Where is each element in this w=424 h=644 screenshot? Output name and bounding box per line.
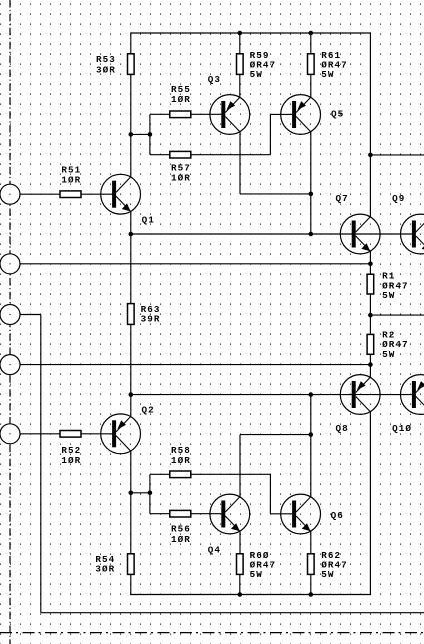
- transistor Q9: [401, 214, 424, 254]
- wire R1 to node: [369, 294, 371, 315]
- svg-text:5W: 5W: [250, 69, 263, 80]
- wire R61 to Q5 emitter: [310, 74, 312, 97]
- svg-text:Q1: Q1: [142, 214, 155, 225]
- junction R58 R56 node: [148, 491, 153, 496]
- wire R58-R56 left link: [149, 474, 151, 513]
- wire node to R58/R56 link: [131, 492, 150, 494]
- wire R62 bottom lead: [310, 574, 312, 594]
- svg-text:5W: 5W: [321, 69, 334, 80]
- svg-text:5W: 5W: [382, 290, 395, 301]
- svg-text:Q2: Q2: [142, 405, 155, 416]
- wire Q7 emitter to node: [369, 251, 371, 264]
- wire negative rail bottom: [131, 594, 371, 596]
- sheet border left (dash-dot): [9, 0, 11, 644]
- wire input 3 down: [40, 315, 42, 613]
- resistor R2: [367, 334, 374, 354]
- terminal pad input 2: [0, 254, 20, 274]
- wire Q6 collector up to base bus: [310, 395, 312, 497]
- resistor R58: [170, 471, 191, 478]
- wire R57 to corner: [191, 154, 271, 156]
- wire input 1 to R51: [21, 193, 61, 195]
- resistor R55: [170, 111, 191, 118]
- terminal pad input 4: [0, 355, 20, 375]
- transistor Q2: [101, 414, 141, 454]
- svg-text:Q6: Q6: [331, 510, 344, 521]
- wire R57 left lead: [150, 154, 170, 156]
- wire node to R55/R57 link: [131, 133, 150, 135]
- wire positive rail top: [131, 32, 371, 34]
- junction R61 top rail: [309, 31, 314, 36]
- svg-text:1ØR: 1ØR: [61, 455, 81, 466]
- transistor Q7: [340, 214, 380, 254]
- svg-text:Q5: Q5: [331, 108, 344, 119]
- resistor R51: [60, 191, 81, 198]
- wire R52 to Q2 base: [81, 433, 113, 435]
- resistor R53: [128, 54, 135, 75]
- wire input 3 across: [21, 314, 41, 316]
- wire node to R63 top: [130, 234, 132, 304]
- wire R55 left lead: [150, 113, 170, 115]
- svg-text:1ØR: 1ØR: [61, 175, 81, 186]
- junction Q6 to base bus: [309, 392, 314, 397]
- wire Q3 collector down: [239, 132, 241, 194]
- svg-text:39R: 39R: [141, 314, 161, 325]
- terminal pad input 5: [0, 424, 20, 444]
- resistor R52: [60, 431, 81, 438]
- wire Q4 emitter to R60: [239, 531, 241, 554]
- svg-text:1ØR: 1ØR: [171, 94, 191, 105]
- wire corner up to Q5 base level: [269, 114, 271, 154]
- svg-text:5W: 5W: [321, 569, 334, 580]
- transistor Q4: [210, 494, 250, 534]
- svg-text:3ØR: 3ØR: [95, 564, 115, 575]
- resistor R57: [170, 151, 191, 158]
- wire base bus Q7 Q9: [131, 233, 412, 235]
- wire Q1 emitter to node: [130, 211, 132, 234]
- wire input 2 to Q7 emitter node: [21, 263, 371, 265]
- svg-text:Q1Ø: Q1Ø: [392, 423, 412, 434]
- wire R2 to node: [369, 354, 371, 364]
- wire Q4 collector across: [240, 434, 311, 436]
- wire input 4 to Q8 node: [21, 364, 371, 366]
- junction R59 top rail: [238, 31, 243, 36]
- wire R58 left lead: [150, 473, 170, 475]
- wire R55-R57 left link: [149, 114, 151, 154]
- wire R56 left lead: [150, 513, 170, 515]
- wire R60 bottom lead: [239, 574, 241, 594]
- wire to Q5 base: [270, 113, 292, 115]
- junction R55 R57 node: [148, 132, 153, 137]
- junction Q3 Q5 collectors: [309, 192, 314, 197]
- transistor Q10: [401, 375, 424, 415]
- junction Q2 collector node: [129, 392, 134, 397]
- wire Q8 emitter down to rail: [369, 411, 371, 595]
- transistor Q5: [281, 95, 321, 135]
- svg-text:1ØR: 1ØR: [171, 534, 191, 545]
- resistor R60: [237, 554, 244, 575]
- wire R53 top lead: [130, 32, 132, 53]
- junction R1 R2 node: [368, 313, 373, 318]
- transistor Q1: [101, 174, 141, 214]
- wire to Q6 base: [270, 513, 292, 515]
- transistor Q3: [210, 95, 250, 135]
- wire Q5 collector down to base bus: [310, 132, 312, 234]
- wire top rail down right side: [369, 32, 371, 216]
- terminal pad input 3: [0, 305, 20, 325]
- sheet border bottom (dash-dot): [0, 632, 424, 634]
- resistor R1: [367, 274, 374, 294]
- wire R51 to Q1 base: [81, 193, 113, 195]
- wire Q6 emitter to R62: [310, 531, 312, 554]
- svg-text:5W: 5W: [250, 569, 263, 580]
- wire R58 to corner: [191, 473, 271, 475]
- svg-text:3ØR: 3ØR: [96, 65, 116, 76]
- wire Q4 collector up: [239, 435, 241, 497]
- wire input 3 bottom run: [41, 612, 424, 614]
- wire base bus Q8 Q10: [131, 394, 412, 396]
- svg-text:Q4: Q4: [208, 544, 221, 555]
- wire output tap mid: [370, 314, 424, 316]
- svg-text:1ØR: 1ØR: [171, 173, 191, 184]
- junction R53 Q1 node: [129, 132, 134, 137]
- terminal pad input 1: [0, 184, 20, 204]
- wire R59 top lead: [239, 33, 241, 54]
- wire node to R2: [369, 315, 371, 334]
- junction upper output tap: [368, 153, 373, 158]
- svg-text:Q9: Q9: [392, 193, 405, 204]
- svg-text:5W: 5W: [382, 349, 395, 360]
- junction Q1 emitter node: [129, 232, 134, 237]
- resistor R63: [128, 304, 135, 325]
- wire R55 to Q3 base: [191, 113, 222, 115]
- wire R53 to node: [130, 74, 132, 134]
- junction R2 Q8 node: [368, 362, 373, 367]
- junction Q4 Q6 collectors: [309, 432, 314, 437]
- svg-text:Q8: Q8: [336, 423, 349, 434]
- wire node to R54 top: [130, 493, 132, 554]
- resistor R59: [237, 54, 244, 75]
- wire R54 bottom lead: [130, 574, 132, 595]
- junction R60 bottom rail: [238, 592, 243, 597]
- resistor R61: [308, 54, 315, 75]
- wire Q3 collector across: [240, 193, 311, 195]
- transistor Q6: [281, 494, 321, 534]
- wire R63 bottom to node: [130, 324, 132, 394]
- wire Q2 emitter to node: [130, 451, 132, 493]
- svg-text:Q7: Q7: [336, 193, 349, 204]
- wire corner down to Q6 base level: [269, 474, 271, 514]
- wire R56 to Q4 base: [191, 513, 222, 515]
- wire node to Q2 collector: [130, 395, 132, 417]
- wire R59 to Q3 emitter: [239, 74, 241, 97]
- junction driver to base bus: [309, 232, 314, 237]
- wire node to Q1 collector: [130, 134, 132, 177]
- wire input 5 to R52: [21, 433, 61, 435]
- svg-text:1ØR: 1ØR: [171, 455, 191, 466]
- wire node to Q8: [369, 365, 371, 378]
- resistor R62: [308, 554, 315, 575]
- wire R61 top lead: [310, 33, 312, 54]
- svg-text:Q3: Q3: [208, 74, 221, 85]
- wire node to R1: [369, 264, 371, 274]
- junction R62 bottom rail: [309, 592, 314, 597]
- resistor R54: [128, 554, 135, 575]
- wire output tap upper: [370, 154, 424, 156]
- junction Q2 emitter node: [129, 491, 134, 496]
- resistor R56: [170, 510, 191, 517]
- junction Q7 emitter node: [368, 262, 373, 267]
- transistor Q8: [340, 375, 380, 415]
